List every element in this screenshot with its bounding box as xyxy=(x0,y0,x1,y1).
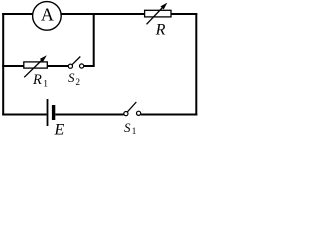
wire: left vertical of outer loop xyxy=(2,13,4,116)
svg-text:1: 1 xyxy=(43,80,48,90)
svg-text:2: 2 xyxy=(76,77,81,87)
arrow of variable resistor R xyxy=(147,7,164,24)
wire: bottom, S1 to right edge xyxy=(141,114,198,116)
wire: middle branch, R1 to S2 xyxy=(47,65,68,67)
svg-text:R: R xyxy=(155,22,166,39)
svg-text:1: 1 xyxy=(132,126,137,136)
switch S1 xyxy=(124,112,128,116)
wire: right vertical of outer loop xyxy=(195,13,197,116)
rheostat R1 xyxy=(24,62,48,68)
arrow of rheostat R1 xyxy=(24,60,42,78)
wire: middle branch, S2 to inner vertical xyxy=(84,65,95,67)
wire: bottom, left edge to battery xyxy=(2,114,46,116)
wire: top, R to right edge xyxy=(171,13,197,15)
battery E: long thin plate xyxy=(47,99,49,126)
wire: bottom, battery to S1 xyxy=(55,114,124,116)
wire: middle branch, left edge to R1 xyxy=(2,65,24,67)
svg-text:S: S xyxy=(68,70,75,85)
svg-text:A: A xyxy=(41,5,54,25)
battery E: short thick plate xyxy=(52,105,55,120)
wire: inner vertical (junction from top wire down to middle branch) xyxy=(93,13,95,66)
ammeter A xyxy=(33,2,62,31)
resistor R (variable) xyxy=(145,10,171,17)
svg-text:S: S xyxy=(124,120,131,135)
wire: top, ammeter to R xyxy=(61,13,145,15)
svg-text:E: E xyxy=(54,122,65,137)
switch S2 xyxy=(68,64,72,68)
svg-text:R: R xyxy=(32,72,42,88)
wire: top, left edge to ammeter xyxy=(2,13,33,15)
